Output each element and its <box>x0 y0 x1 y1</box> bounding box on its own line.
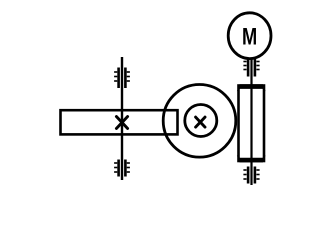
worm wheel hub inner circle <box>185 105 217 137</box>
worm top end band (chamfered) <box>237 84 266 91</box>
cross mark X on wheel hub <box>196 117 205 127</box>
bearing (worm shaft, upper) <box>243 58 259 77</box>
worm body <box>239 86 265 162</box>
worm wheel outer circle <box>163 85 236 158</box>
motor/worm shaft (vertical, continuous) <box>250 58 252 186</box>
bearing (left shaft, upper) <box>114 68 130 89</box>
bearing (worm shaft, lower) <box>243 167 259 184</box>
arm/link bar on vertical shaft <box>61 110 178 134</box>
worm bottom end band (chamfered) <box>237 155 266 162</box>
bearing (left shaft, lower) <box>114 160 130 177</box>
vertical shaft (left, output) <box>121 57 123 180</box>
svg-text:M: M <box>242 23 257 50</box>
cross mark X on arm (shaft axis) <box>116 117 127 129</box>
motor M <box>228 13 271 59</box>
